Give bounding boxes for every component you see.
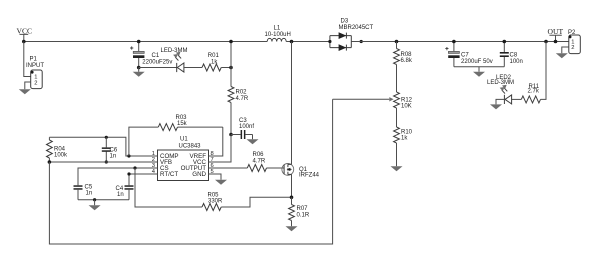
junction R03 left on COMP line	[127, 154, 130, 157]
svg-text:2200uF25v: 2200uF25v	[142, 60, 172, 66]
wire Q1 drain up to rail	[291, 42, 293, 165]
wire L1 to D3	[286, 41, 330, 43]
diode D3 MBR2045CT	[330, 19, 374, 52]
ground P2	[556, 53, 568, 58]
svg-text:UC3843: UC3843	[179, 144, 202, 150]
svg-text:1n: 1n	[117, 192, 124, 198]
wire pin6 OUTPUT to R06	[209, 167, 248, 169]
svg-text:0.1R: 0.1R	[297, 213, 310, 219]
wire pin7 VCC to C3 junction	[209, 135, 232, 163]
svg-text:LED-3MM: LED-3MM	[161, 48, 188, 54]
svg-text:R02: R02	[236, 90, 248, 96]
wire P2 pin2 to ground	[562, 47, 569, 53]
junction VCC	[22, 40, 26, 44]
resistor R05	[202, 193, 223, 211]
wire C7 C8 bottoms	[454, 66, 504, 68]
svg-text:100n: 100n	[510, 59, 523, 65]
junction C4 top	[127, 172, 130, 175]
junction OUT	[554, 40, 558, 44]
wire C1 to LED1	[139, 67, 177, 69]
IC U1 UC3843	[152, 137, 214, 181]
LED D1 LED-3MM	[161, 48, 188, 72]
svg-text:1n: 1n	[86, 191, 93, 197]
wire C5 C4 bottoms	[78, 199, 129, 201]
junction ground C5/C4	[93, 198, 96, 201]
svg-text:100nf: 100nf	[239, 124, 254, 130]
wire R02 to C3 junction	[230, 103, 232, 135]
svg-text:4.7R: 4.7R	[236, 96, 249, 102]
capacitor C8	[500, 42, 523, 67]
svg-text:MBR2045CT: MBR2045CT	[339, 25, 374, 31]
svg-text:2: 2	[34, 80, 37, 86]
junction D3 cathode	[360, 40, 363, 43]
capacitor C1	[130, 42, 172, 68]
svg-text:2.7k: 2.7k	[528, 89, 540, 95]
svg-text:2: 2	[571, 45, 574, 51]
transistor Q1 IRFZ44	[282, 164, 320, 179]
wire R11 to LED2	[511, 98, 522, 100]
capacitor C7	[445, 42, 492, 67]
junction C6 bottom on VFB line	[105, 160, 108, 163]
junction R04 bottom / VFB	[48, 160, 52, 164]
svg-text:C1: C1	[152, 53, 160, 59]
junction CS to R05 branch	[133, 166, 136, 169]
resistor R08	[394, 49, 413, 65]
junction R01/R02 column top	[229, 66, 233, 70]
svg-text:INPUT: INPUT	[26, 63, 44, 69]
svg-text:10K: 10K	[401, 103, 412, 109]
junction LED2 branch	[544, 40, 548, 44]
wire junction down to R02	[230, 68, 232, 87]
wire R06 to Q1 gate	[267, 167, 285, 169]
junction D3 anode	[328, 40, 331, 43]
svg-text:D3: D3	[341, 19, 349, 25]
ground R10	[391, 143, 403, 171]
junction R08 top	[395, 40, 399, 44]
svg-text:IRFZ44: IRFZ44	[299, 172, 320, 178]
junction C7 top	[452, 40, 456, 44]
resistor R02	[228, 87, 249, 103]
wire R12 to R10	[396, 108, 398, 127]
svg-text:R07: R07	[297, 206, 309, 212]
capacitor C5	[74, 185, 93, 200]
wire VCC down to P1 pin1	[24, 42, 31, 77]
svg-text:GND: GND	[192, 171, 206, 178]
capacitor C6	[102, 137, 118, 162]
svg-text:1n: 1n	[110, 154, 117, 160]
junction L1 / Q1 drain	[290, 40, 294, 44]
ground P1	[19, 89, 31, 94]
junction C3	[229, 133, 233, 137]
node OUT power symbol	[548, 27, 564, 41]
svg-text:C8: C8	[510, 53, 518, 59]
svg-text:R01: R01	[208, 53, 220, 59]
ground U1 pin5	[215, 180, 227, 185]
wire P1 pin2 to ground	[25, 82, 31, 89]
wire D3 to P2	[351, 41, 569, 43]
svg-text:15k: 15k	[177, 121, 188, 127]
wire pin3 CS to C5	[78, 168, 158, 185]
resistor R03	[129, 115, 223, 156]
connector P1	[26, 57, 44, 89]
svg-text:R06: R06	[253, 152, 265, 158]
wire LED1 to R01	[184, 67, 202, 69]
wire R03 right to pin8 VREF	[209, 127, 223, 156]
junction C1 top	[137, 40, 141, 44]
ground C7/C8	[473, 67, 485, 77]
wire Q1 source down to sense	[291, 174, 293, 197]
svg-text:C7: C7	[461, 53, 469, 59]
wire R05 to sense junction	[221, 197, 291, 207]
svg-text:4.7R: 4.7R	[253, 159, 266, 165]
wire CS branch down to R05	[135, 168, 202, 207]
resistor R11	[521, 84, 540, 103]
svg-text:LED-3MM: LED-3MM	[487, 80, 514, 86]
capacitor C4	[116, 174, 134, 200]
ground C5/C4	[89, 200, 101, 211]
capacitor C3	[231, 118, 254, 139]
svg-text:L1: L1	[274, 26, 281, 32]
wire rail to R02 column	[230, 42, 232, 68]
resistor R10	[394, 127, 413, 143]
wire R12 wiper to feedback	[333, 98, 390, 100]
svg-text:1k: 1k	[211, 59, 218, 65]
ground R07	[286, 221, 298, 232]
ground LED2	[490, 104, 502, 109]
wire pin2 VFB to R04 bottom	[49, 161, 157, 163]
wire top rail VCC to L1	[24, 41, 267, 43]
junction C1 bottom	[137, 66, 141, 70]
svg-text:6.8k: 6.8k	[401, 58, 413, 64]
wire R08 to R12	[396, 65, 398, 93]
svg-text:2200uF 50v: 2200uF 50v	[461, 59, 493, 65]
svg-text:10-100uH: 10-100uH	[265, 32, 291, 38]
junction C8 top	[503, 40, 507, 44]
connector P2	[568, 30, 580, 54]
ground C3	[247, 135, 259, 145]
wire pin1 COMP to R04 top	[49, 137, 157, 156]
junction Q1 source / R07 / R05	[290, 196, 294, 200]
wire LED2 to ground	[496, 99, 504, 104]
LED D2 LED-3MM	[487, 75, 514, 104]
junction rail at R02 column	[229, 40, 233, 44]
resistor R06	[247, 152, 266, 171]
junction C6 top	[105, 136, 108, 139]
svg-text:1k: 1k	[401, 135, 408, 141]
resistor R04	[47, 137, 69, 162]
resistor R01	[202, 53, 221, 71]
wire VFB down to bottom rail and to R12 wiper	[49, 99, 332, 244]
wire rail to R08	[396, 42, 398, 49]
potentiometer R12	[389, 92, 412, 109]
node VCC power symbol	[17, 27, 33, 42]
wire R01 to column junction	[221, 67, 231, 69]
wire branch down to R11	[541, 42, 547, 100]
svg-text:P1: P1	[30, 57, 38, 63]
inductor L1	[265, 26, 291, 42]
resistor R07	[289, 197, 310, 220]
svg-text:U1: U1	[180, 137, 188, 143]
ground C1	[133, 68, 145, 77]
svg-text:100k: 100k	[54, 153, 68, 159]
svg-text:RT/CT: RT/CT	[160, 171, 178, 178]
wire pin5 GND to ground	[209, 174, 222, 180]
wire pin4 RT/CT to C4	[129, 173, 158, 175]
